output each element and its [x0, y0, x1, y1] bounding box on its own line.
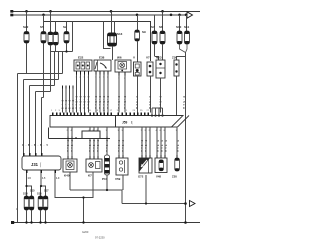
wire below S22: [26, 43, 28, 74]
svg-text:V7: V7: [146, 56, 150, 60]
svg-text:0.5: 0.5: [68, 100, 72, 110]
svg-text:V59: V59: [115, 177, 121, 181]
wire twin drop from bus30: [50, 12, 52, 33]
fuse S11: [185, 31, 190, 44]
Z20 bottom wire: [176, 76, 178, 116]
fuse S13 big: [108, 33, 117, 46]
fuse S8: [160, 31, 165, 44]
J31 to bottom fuse pair 1: [27, 173, 46, 196]
wire fuse S7 drop: [154, 15, 156, 31]
svg-text:0.5sw: 0.5sw: [121, 140, 125, 153]
wire fuse S10 drop: [179, 15, 181, 31]
switch box E38: [94, 60, 111, 71]
switch box E22: [74, 60, 92, 71]
relay box N23: [156, 56, 165, 79]
svg-text:Z20: Z20: [172, 175, 177, 179]
bottom fuse S16: [38, 196, 43, 210]
long right wire: [185, 53, 187, 223]
svg-text:0.5sw: 0.5sw: [66, 140, 70, 153]
wire below S7: [154, 44, 156, 56]
bottom fuse S17: [43, 196, 48, 210]
node dot bus15 x186: [185, 14, 188, 17]
svg-text:0.5sw: 0.5sw: [105, 140, 109, 153]
bus 30 (battery +) top line: [12, 11, 200, 13]
svg-text:0.5sw: 0.5sw: [70, 140, 74, 153]
node dot bus30 x162: [161, 10, 164, 13]
svg-text:S5: S5: [40, 25, 44, 29]
relay J31: [22, 156, 61, 170]
connector row under strip: [49, 128, 111, 139]
svg-text:S7: S7: [151, 25, 155, 29]
fuse S5: [41, 32, 46, 44]
svg-text:0.5sw: 0.5sw: [117, 140, 121, 153]
terminal square bus 15: [10, 14, 13, 17]
node dot bus30 x26: [25, 10, 28, 13]
left cluster pin ticks: [63, 86, 74, 89]
wire W16 to mid bus: [70, 172, 186, 204]
fuse S4: [48, 32, 53, 45]
svg-text:0.5sw: 0.5sw: [176, 140, 180, 153]
svg-text:S8: S8: [159, 25, 163, 29]
arrow continuation bus 15: [187, 12, 193, 18]
node dot bus15 x137: [136, 14, 139, 17]
svg-text:0.5: 0.5: [64, 100, 68, 110]
resistor pill P: [102, 155, 110, 181]
pin labels below strip: [67, 130, 178, 132]
svg-text:S17: S17: [44, 189, 49, 193]
left staircase horizontals: [18, 74, 63, 98]
node dot bus15 x180: [178, 14, 181, 17]
heater element D: [172, 56, 186, 77]
svg-text:0.5sw: 0.5sw: [88, 140, 92, 153]
svg-text:K7: K7: [88, 174, 92, 178]
wire below S8: [162, 44, 164, 60]
left columns down: [18, 74, 42, 223]
pin ticks above bottom components: [68, 155, 177, 159]
svg-text:J59: J59: [122, 121, 128, 125]
motor V: [134, 15, 147, 76]
strip bottom exit pin ticks: [68, 127, 177, 130]
wire big fuse drop: [111, 12, 113, 34]
fuse S22: [24, 32, 29, 44]
strip pin labels row: [51, 110, 150, 112]
svg-text:0.5: 0.5: [60, 100, 64, 110]
svg-text:S22: S22: [23, 25, 29, 29]
N23 pin down: [160, 78, 162, 113]
svg-text:0.5sw: 0.5sw: [144, 140, 148, 153]
fuse S3: [53, 32, 58, 45]
E22 pin wires down: [63, 75, 126, 113]
V2 pin down: [150, 76, 152, 113]
svg-text:0.5sw: 0.5sw: [164, 140, 168, 153]
bottom fuse S15: [29, 196, 34, 210]
motor V2: [146, 56, 153, 77]
svg-text:S16: S16: [37, 192, 42, 196]
wire J31 right pin to lamps: [55, 172, 93, 223]
svg-text:W6: W6: [117, 56, 122, 60]
fuse S7: [152, 31, 157, 44]
wire below S13: [112, 46, 114, 60]
collector line under fuses: [51, 51, 73, 53]
lamp box K: [86, 159, 102, 178]
fuse tails to ground bus: [27, 210, 46, 223]
svg-text:97-2230: 97-2230: [95, 236, 105, 240]
wire fuse S8 drop: [162, 12, 164, 32]
terminal square bus 30: [10, 10, 13, 13]
N23 cluster wires into strip: [152, 108, 163, 116]
pin numbers under boxes: [76, 77, 127, 80]
fuse S2: [64, 22, 69, 44]
fuse S10: [177, 31, 182, 44]
Y merge of S10/S11: [180, 44, 186, 53]
svg-text:G200: G200: [82, 230, 89, 234]
arrow mid-right: [190, 201, 196, 207]
bottom fuse labels: [23, 189, 49, 196]
V pin: [137, 76, 139, 113]
wire below S3: [55, 45, 57, 52]
pill Z20: [172, 158, 179, 179]
bottom fuse S14: [24, 196, 29, 210]
svg-text:G72: G72: [138, 175, 144, 179]
svg-text:0.5sw: 0.5sw: [160, 140, 164, 153]
svg-text:0.5: 0.5: [40, 143, 49, 147]
wire below S4: [50, 45, 52, 52]
svg-text:0.5sw: 0.5sw: [140, 140, 144, 153]
E22 pins: [77, 71, 89, 75]
below strip labels: [22, 140, 180, 153]
svg-text:K40: K40: [64, 174, 70, 178]
sensor G72: [138, 158, 152, 179]
svg-text:E22: E22: [78, 56, 84, 60]
svg-text:N23: N23: [156, 56, 162, 60]
svg-text:0.5sw: 0.5sw: [92, 140, 96, 153]
W6 pins: [119, 72, 125, 76]
svg-text:S9: S9: [142, 30, 146, 34]
bus 15 second line: [12, 14, 187, 16]
svg-text:V48: V48: [156, 175, 161, 179]
J31 pins top: [24, 153, 42, 156]
node dot bus15 x43: [42, 14, 45, 17]
J31 pins bottom: [27, 170, 56, 173]
labels under J31 pins: [28, 177, 60, 180]
lamp box W16: [63, 159, 77, 178]
svg-text:S15: S15: [30, 189, 35, 193]
wire labels row (tiny): [60, 96, 186, 110]
pump V59: [115, 158, 128, 181]
wire fuse S5 drop: [43, 15, 45, 32]
ground bus bottom: [13, 222, 200, 224]
bypass L wire: [104, 22, 111, 49]
svg-text:E38: E38: [99, 56, 105, 60]
E38 pins: [96, 71, 108, 75]
svg-text:V: V: [133, 56, 135, 60]
motor V48: [155, 158, 167, 179]
svg-text:S13: S13: [117, 32, 123, 36]
node dot bus30 x50: [49, 10, 52, 13]
svg-text:S14: S14: [23, 192, 28, 196]
svg-text:S10: S10: [176, 25, 182, 29]
central connector strip J: [50, 116, 189, 128]
strip top pins: [53, 113, 149, 116]
node dot bus30 x111: [110, 10, 113, 13]
svg-text:S11: S11: [184, 25, 190, 29]
below strip wires: [68, 127, 177, 159]
lamp box W6: [115, 60, 131, 72]
svg-text:0.5sw: 0.5sw: [156, 140, 160, 153]
node dot bus15 x171: [170, 14, 173, 17]
svg-text:0.5sw: 0.5sw: [96, 140, 100, 153]
svg-text:0.5: 0.5: [71, 100, 75, 110]
wire fuse S11 drop: [186, 15, 188, 31]
staircase feeders: [51, 52, 63, 92]
wire fuse S22 drop: [26, 12, 28, 32]
node dots on strip top right: [151, 114, 153, 116]
bus X third line: [44, 22, 151, 62]
wire below S5: [43, 43, 45, 98]
